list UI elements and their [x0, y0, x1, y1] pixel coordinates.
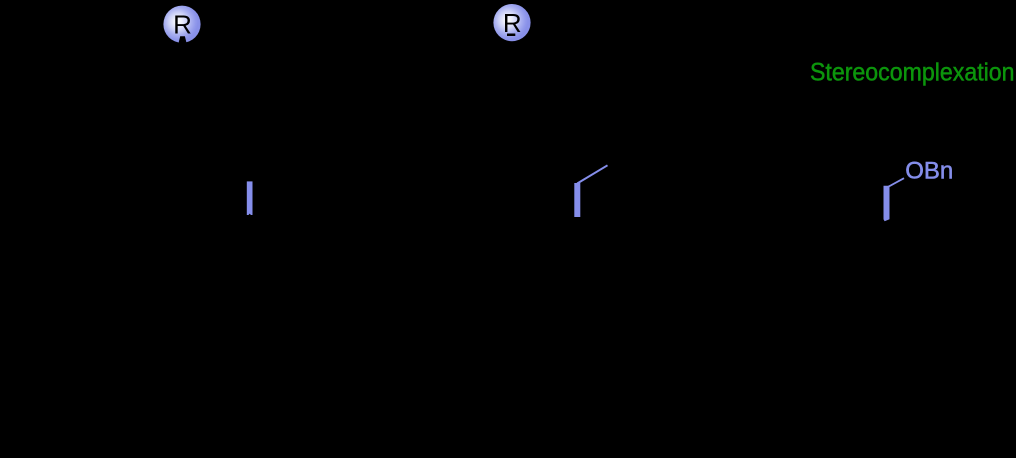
svg-text:OBn: OBn [905, 158, 953, 185]
svg-text:R: R [173, 10, 192, 40]
OBn wedge bar [884, 186, 890, 222]
purple bond B bar [574, 183, 580, 217]
R sphere 1 [163, 6, 200, 44]
R sphere 2 [493, 4, 530, 41]
svg-text:Stereocomplexation: Stereocomplexation [810, 58, 1015, 86]
purple bond B diagonal [577, 165, 607, 183]
purple bond bar A [247, 181, 253, 215]
OBn thin bond [888, 178, 904, 187]
